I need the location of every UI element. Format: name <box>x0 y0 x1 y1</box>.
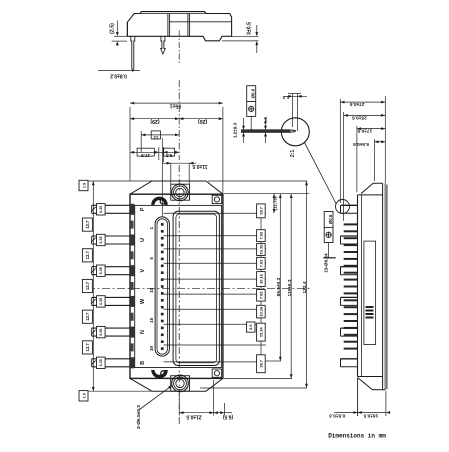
ext 27 down <box>339 99 341 203</box>
dim 0.8 line at pin tip <box>98 70 140 72</box>
side ext case face down <box>357 378 359 417</box>
svg-text:Ø0.6: Ø0.6 <box>251 88 256 98</box>
ext for dim 12 <box>140 131 142 152</box>
svg-text:86.5±0.3: 86.5±0.3 <box>276 277 282 296</box>
detail target circle on pin <box>336 200 350 214</box>
dim 11.75 line <box>273 194 275 214</box>
svg-text:19-Ø0.64: 19-Ø0.64 <box>324 253 329 273</box>
dim 0.6 lower <box>265 136 267 143</box>
svg-text:12.7: 12.7 <box>85 312 90 321</box>
main view bottom flange trapezoid <box>130 378 223 391</box>
svg-text:2.5: 2.5 <box>248 324 253 330</box>
svg-text:0.5±0.3: 0.5±0.3 <box>329 413 345 419</box>
svg-text:N: N <box>140 330 146 334</box>
svg-text:1.2±0.3: 1.2±0.3 <box>232 122 237 138</box>
boxed dim 10.16 <box>257 244 266 256</box>
view A pin 2 short with pointed tip <box>161 36 166 54</box>
ext hole center down <box>178 392 180 416</box>
top-left thick half arc boss <box>153 198 166 205</box>
svg-text:Ø0.6: Ø0.6 <box>328 214 333 224</box>
svg-text:110±0.3: 110±0.3 <box>287 279 293 296</box>
svg-text:(11.75): (11.75) <box>273 196 278 211</box>
boxed dim 9.5 <box>164 148 175 156</box>
horizontal centerline main view <box>87 287 310 289</box>
ext 1.2 tip right <box>296 94 298 132</box>
svg-text:122.4: 122.4 <box>302 281 308 293</box>
svg-text:21±0.5: 21±0.5 <box>186 414 201 420</box>
ext body right up <box>222 107 224 194</box>
bottom-right corner block <box>212 369 221 377</box>
svg-text:16±0.5: 16±0.5 <box>363 413 378 419</box>
svg-text:17.5: 17.5 <box>141 153 150 158</box>
boxed dim 10.16 <box>257 305 266 318</box>
ext line standoff right <box>222 40 258 42</box>
power pin B <box>92 358 131 360</box>
19 signal pin pads in slot <box>161 223 164 226</box>
ext line top left <box>85 180 152 182</box>
side bottom dim line <box>334 412 386 414</box>
top hole square pad <box>171 184 190 200</box>
ext 86.5 bottom <box>266 360 281 362</box>
svg-text:1.2: 1.2 <box>282 94 289 100</box>
side label rect <box>364 241 376 345</box>
leader 2-dia6.5 <box>140 385 173 409</box>
ext 6.5 down <box>373 139 375 181</box>
svg-text:0.8±0.2: 0.8±0.2 <box>110 72 127 78</box>
svg-text:6.35: 6.35 <box>99 267 103 274</box>
svg-text:6.35: 6.35 <box>99 237 103 244</box>
boxed dim 12 <box>151 131 160 139</box>
bottom mounting hole inner <box>176 379 184 387</box>
boxed dim 7.62 <box>257 230 266 242</box>
svg-text:3±0.5: 3±0.5 <box>247 22 253 35</box>
body edge slot for pin V <box>130 265 134 276</box>
dim 0.6 upper <box>265 118 267 127</box>
svg-text:6.35: 6.35 <box>99 329 103 336</box>
svg-text:2-Ø6.5±0.3: 2-Ø6.5±0.3 <box>136 405 142 429</box>
svg-text:6.35: 6.35 <box>99 206 103 213</box>
view A internal vertical 2 <box>169 14 171 37</box>
side view bottom flange <box>358 378 386 390</box>
svg-text:5: 5 <box>149 257 154 260</box>
dim 17.5 / 9.5 line <box>130 151 179 153</box>
dim 1.2+-0.3 lower <box>243 136 245 143</box>
main body rectangle <box>130 194 223 378</box>
ext 25 down <box>343 112 345 221</box>
svg-text:6.5±0.5: 6.5±0.5 <box>353 141 369 147</box>
ext line top right <box>224 193 310 195</box>
svg-text:28.7: 28.7 <box>258 360 263 368</box>
dim 1.2 tip line <box>283 95 307 97</box>
svg-text:V: V <box>140 269 146 273</box>
body edge slot for pin U <box>130 235 134 246</box>
case top edge <box>358 194 383 196</box>
bottom mounting hole middle <box>174 377 187 390</box>
ext 21 right down <box>213 380 215 416</box>
svg-text:0.6: 0.6 <box>263 117 269 124</box>
svg-text:P: P <box>140 207 146 211</box>
svg-text:15.24: 15.24 <box>258 327 263 338</box>
top mounting hole inner <box>176 188 184 196</box>
svg-text:10.16: 10.16 <box>258 244 263 255</box>
dim (2.5) line lower <box>116 44 118 46</box>
svg-text:12.7: 12.7 <box>85 281 90 290</box>
dim 86.5 line <box>279 194 281 361</box>
top-right corner block <box>212 195 221 203</box>
view A package side elevation outline <box>127 12 231 41</box>
slot center extension line <box>161 138 163 217</box>
boxed dim 12.7 <box>82 218 92 231</box>
svg-text:11±0.5: 11±0.5 <box>192 163 207 169</box>
top mounting hole middle <box>174 186 187 199</box>
view A left edge <box>126 22 128 36</box>
svg-text:(2.5): (2.5) <box>110 23 116 34</box>
boxed dim 17.5 <box>137 148 154 156</box>
svg-text:12.7: 12.7 <box>85 343 90 352</box>
boxed dim 7.62 <box>257 290 266 302</box>
bottom chain box <box>79 391 88 401</box>
bottom mounting hole outer <box>172 375 189 392</box>
svg-text:10.16: 10.16 <box>258 306 263 317</box>
ext 17.5 right <box>158 147 160 160</box>
svg-text:1.9: 1.9 <box>82 393 86 398</box>
side view top flange <box>361 183 383 193</box>
base plate back <box>386 185 388 390</box>
dim 55 line <box>130 102 223 104</box>
ext body left up <box>129 107 131 181</box>
svg-text:12: 12 <box>153 136 159 141</box>
svg-text:1.9: 1.9 <box>82 183 86 188</box>
ext 9.5 left <box>162 147 164 162</box>
power pin V <box>92 266 131 268</box>
dim 26 line <box>179 118 223 120</box>
intermediate edge slots <box>130 221 133 229</box>
power pin P width box <box>97 204 106 215</box>
dim 110 line <box>290 194 292 379</box>
left chain dimension line <box>92 181 94 391</box>
boxed dim 28.7 <box>257 355 266 373</box>
svg-text:28.7: 28.7 <box>258 207 263 215</box>
power pin B width box <box>97 357 106 368</box>
gdt frame detail <box>247 86 256 117</box>
side view signal pins <box>344 223 358 225</box>
svg-text:10.16: 10.16 <box>258 273 263 284</box>
side label text block <box>366 306 374 308</box>
ext 122.4 bottom <box>200 387 307 389</box>
case inner line <box>361 195 363 377</box>
ext 11 right down <box>188 163 190 184</box>
dim (2.5) line upper <box>116 20 118 33</box>
svg-text:27±0.5: 27±0.5 <box>350 101 365 107</box>
side view power pins <box>341 204 358 206</box>
svg-text:6.35: 6.35 <box>99 298 103 305</box>
body edge slot for pin N <box>130 327 134 338</box>
boxed dim 12.7 <box>82 249 92 262</box>
gdt leader down <box>250 116 252 129</box>
ext 11 left down <box>170 163 172 184</box>
right recess rounded rect inner <box>176 214 217 363</box>
view A internal vertical 3 <box>187 14 189 37</box>
connector slot inner stadium <box>157 219 168 354</box>
side ext base down <box>385 391 387 416</box>
vertical centerline main view <box>178 165 180 425</box>
top-right corner hole <box>214 197 219 202</box>
svg-text:15: 15 <box>149 317 154 323</box>
body edge slot for pin W <box>130 296 134 307</box>
lid rectangle <box>135 205 222 367</box>
ext 1.2 tip left <box>292 94 294 128</box>
top chain box <box>79 180 88 190</box>
svg-text:(26): (26) <box>198 118 207 124</box>
power pin V width box <box>97 265 106 276</box>
svg-text:1: 1 <box>149 226 154 229</box>
side dim 17&#177;0.5 <box>357 128 385 130</box>
svg-text:(29): (29) <box>150 118 159 124</box>
bottom-left small ring <box>161 371 166 376</box>
detail circle <box>281 118 309 146</box>
bottom hole square pad <box>171 376 190 391</box>
ext 110 bottom <box>224 377 292 379</box>
svg-text:(6.5): (6.5) <box>223 414 234 420</box>
boxed dim 12.7 <box>82 310 92 323</box>
boxed dim 2.5 <box>247 322 256 332</box>
svg-text:19: 19 <box>149 346 154 352</box>
power pin N <box>92 327 131 329</box>
connector slot outer stadium <box>155 217 169 356</box>
svg-text:Dimensions in mm: Dimensions in mm <box>328 433 386 440</box>
body edge slot for pin P <box>130 204 134 215</box>
view A internal horizontal <box>170 21 232 23</box>
side dim 27&#177;0.5 <box>340 101 385 103</box>
ext 122.4 top <box>208 180 307 182</box>
top-left small ring <box>160 199 165 204</box>
top mounting hole outer <box>172 184 189 201</box>
boxed dim 15.24 <box>257 323 266 341</box>
base plate mid <box>384 183 386 390</box>
svg-text:7.62: 7.62 <box>258 259 263 267</box>
view A internal vertical 4 <box>189 14 191 37</box>
boxed dim 10.16 <box>257 272 266 287</box>
dim 11 line <box>171 162 189 164</box>
side ext right vertical <box>384 96 386 183</box>
dim 12 line <box>141 134 179 136</box>
leader lines from pins to pitch boxes <box>164 212 267 214</box>
svg-text:2:1: 2:1 <box>290 150 296 158</box>
ext line bottom edge right <box>232 35 259 37</box>
svg-text:9.5: 9.5 <box>166 153 173 158</box>
svg-text:B: B <box>140 361 146 365</box>
side dim 6.5&#177;0.5 <box>374 141 385 143</box>
power pin U <box>92 235 131 237</box>
dim 122.4 line <box>306 181 308 388</box>
right recess rounded rect outer <box>173 211 219 365</box>
power pin W <box>92 296 131 298</box>
boxed dim 12.7 <box>82 279 92 292</box>
dim 1.2+-0.3 upper <box>243 118 245 127</box>
svg-text:12.7: 12.7 <box>85 251 90 260</box>
detail pin bar <box>241 130 295 132</box>
view A top step line <box>140 13 206 15</box>
ext 17 down <box>356 126 358 192</box>
svg-text:25±0.5: 25±0.5 <box>352 114 367 120</box>
dim 3 line lower <box>256 44 258 53</box>
power pin P <box>92 204 131 206</box>
gdt frame side <box>324 212 333 243</box>
view A internal vertical 1 <box>167 14 169 37</box>
gdt side leader down <box>328 243 330 258</box>
ext 6.5 down <box>223 403 225 416</box>
svg-text:7.62: 7.62 <box>258 291 263 299</box>
dim 29 line <box>130 118 179 120</box>
boxed dim 12.7 <box>82 341 92 354</box>
side dim 25&#177;0.5 <box>344 114 386 116</box>
main view top flange trapezoid <box>130 181 223 194</box>
boxed dim 28.7 <box>257 204 266 218</box>
boxed dim 7.62 <box>257 257 266 269</box>
power pin U width box <box>97 234 106 245</box>
vertical centerline upper main <box>178 80 180 160</box>
bottom-left thick half arc boss <box>153 370 166 377</box>
svg-text:U: U <box>140 238 146 242</box>
base plate front <box>382 183 384 390</box>
bottom-right corner hole <box>214 371 219 376</box>
svg-text:17±0.5: 17±0.5 <box>357 128 372 134</box>
case front face <box>357 195 359 377</box>
dim 3 line upper <box>256 25 258 34</box>
svg-text:12.7: 12.7 <box>85 220 90 229</box>
power pin W width box <box>97 296 106 307</box>
ext line bottom edge left <box>114 35 127 37</box>
dim 21 and 6.5 line <box>179 412 224 414</box>
body edge slot for pin B <box>130 357 134 368</box>
view A centerline <box>178 31 180 65</box>
ext line standoff left <box>112 40 127 42</box>
ext line bottom left <box>85 390 152 392</box>
detail leader line <box>305 143 337 204</box>
right chain line <box>260 213 262 362</box>
power pin N width box <box>97 326 106 337</box>
gdt position symbol <box>249 106 254 111</box>
svg-text:6.35: 6.35 <box>99 359 103 366</box>
svg-text:7.62: 7.62 <box>258 231 263 239</box>
case bottom edge <box>358 376 383 378</box>
view A pin 1 long <box>131 36 135 71</box>
gdt side tick <box>323 257 335 259</box>
